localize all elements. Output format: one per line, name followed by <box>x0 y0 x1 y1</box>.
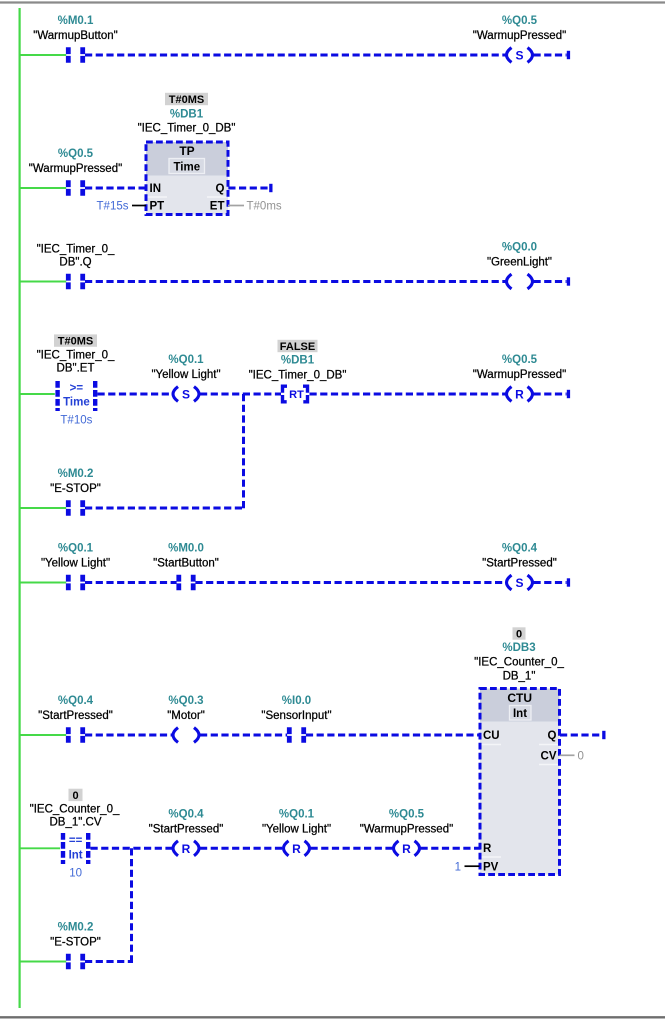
svg-text:%I0.0: %I0.0 <box>282 695 311 707</box>
svg-text:%Q0.0: %Q0.0 <box>502 242 537 254</box>
comparator value box 0 <box>69 789 83 802</box>
wire contact to coil Q0.0 <box>85 280 506 283</box>
svg-text:RT: RT <box>289 389 304 401</box>
label coil R %Q0.5 <box>473 354 566 381</box>
svg-text:"Yellow Light": "Yellow Light" <box>262 823 331 835</box>
timer block U1 TP body <box>146 142 228 215</box>
contact %Q0.4 StartPressed <box>68 727 82 742</box>
comparator CMP2 == Int <box>63 833 88 880</box>
label %Q0.4 StartPressed <box>482 543 557 570</box>
svg-text:"StartButton": "StartButton" <box>153 558 219 570</box>
label coil R %Q0.5 row6 <box>360 808 453 835</box>
svg-text:PV: PV <box>483 861 499 873</box>
svg-text:%Q0.1: %Q0.1 <box>58 543 94 555</box>
wire comparator to coil R Q0.4 <box>91 847 173 850</box>
wire coil S to RT coil <box>200 393 281 396</box>
svg-text:CV: CV <box>541 751 557 763</box>
svg-text:0: 0 <box>516 629 522 641</box>
RT value box <box>278 340 318 353</box>
svg-text:DB_1".CV: DB_1".CV <box>49 817 101 829</box>
label %Q0.1 Yellow Light <box>151 354 220 381</box>
label contact %Q0.1 <box>41 543 110 570</box>
svg-text:S: S <box>182 388 190 402</box>
wire rail to contact M0.2 <box>20 507 66 509</box>
svg-text:Int: Int <box>513 708 527 720</box>
rung 4 end tick <box>567 390 570 398</box>
svg-text:%Q0.3: %Q0.3 <box>168 695 203 707</box>
counter block U2 CTU body <box>480 689 560 875</box>
svg-text:%Q0.4: %Q0.4 <box>502 543 538 555</box>
svg-text:Int: Int <box>69 850 83 862</box>
counter Q end tick <box>602 731 605 739</box>
wire rail to contact M0.1 <box>20 54 66 56</box>
svg-text:>=: >= <box>70 383 84 395</box>
svg-text:DB".Q: DB".Q <box>59 257 91 269</box>
wire contact Q0.4 to coil Motor <box>85 734 172 737</box>
contact %M0.1 WarmupButton <box>68 47 82 62</box>
svg-text:"WarmupPressed": "WarmupPressed" <box>473 30 566 42</box>
RT labels FALSE %DB1 <box>249 340 347 382</box>
svg-text:%Q0.4: %Q0.4 <box>168 808 204 820</box>
wire comparator to coil S Q0.1 <box>98 393 173 396</box>
svg-text:PT: PT <box>150 201 165 213</box>
timer ET monitor T#0ms <box>228 201 282 213</box>
counter R separator <box>482 856 502 858</box>
wire rail to comparator == <box>20 847 60 849</box>
svg-text:T#0ms: T#0ms <box>247 201 282 213</box>
coil S %Q0.4 StartPressed <box>507 575 533 590</box>
svg-text:%Q0.1: %Q0.1 <box>279 808 315 820</box>
svg-text:%Q0.5: %Q0.5 <box>58 148 94 160</box>
svg-text:10: 10 <box>69 868 82 880</box>
wire contact E-STOP2 to branch <box>85 960 133 963</box>
bottom border <box>0 1016 665 1018</box>
timer value box <box>165 93 208 106</box>
svg-text:T#0MS: T#0MS <box>169 94 204 106</box>
wire RT to coil R Q0.5 <box>310 393 506 396</box>
svg-text:TP: TP <box>179 144 194 158</box>
svg-text:R: R <box>483 843 492 855</box>
coil RT IEC_Timer_0_DB <box>283 386 308 402</box>
svg-text:"WarmupPressed": "WarmupPressed" <box>360 823 453 835</box>
label %M0.1 WarmupButton <box>33 15 117 42</box>
coil R %Q0.5 WarmupPressed <box>394 841 420 856</box>
contact IEC_Timer_0_DB.Q <box>68 274 82 289</box>
svg-text:"WarmupButton": "WarmupButton" <box>33 30 117 42</box>
timer PT constant T#15s <box>97 201 146 213</box>
rung 3 end tick <box>567 277 570 285</box>
top border <box>0 1 665 3</box>
svg-text:1: 1 <box>455 861 461 873</box>
label coil R %Q0.4 <box>149 808 224 835</box>
wire rail to comparator <box>20 393 55 395</box>
svg-text:R: R <box>292 842 301 856</box>
counter value box <box>513 627 526 640</box>
wire rail to contact Q0.4 <box>20 734 66 736</box>
counter type box Int <box>510 706 532 721</box>
wire rail to contact M0.2 bottom <box>20 961 66 963</box>
wire contact Q0.1 to contact M0.0 <box>85 581 177 584</box>
label contact %Q0.5 WarmupPressed <box>29 148 122 175</box>
svg-text:CTU: CTU <box>507 691 532 705</box>
svg-text:R: R <box>402 842 411 856</box>
wire branch vertical E-STOP to rung 4 <box>242 394 245 509</box>
svg-text:%Q0.5: %Q0.5 <box>389 808 425 820</box>
svg-text:"IEC_Counter_0_: "IEC_Counter_0_ <box>30 804 120 816</box>
wire coil R Q0.5 to counter R <box>421 847 481 850</box>
wire contact M0.0 to coil S Q0.4 <box>195 581 505 584</box>
contact %M0.2 E-STOP bottom <box>68 954 82 969</box>
wire rail to contact Q0.1 <box>20 582 66 584</box>
svg-text:DB_1": DB_1" <box>503 671 536 683</box>
svg-text:%DB3: %DB3 <box>502 642 535 654</box>
svg-text:"E-STOP": "E-STOP" <box>50 483 101 495</box>
svg-text:DB".ET: DB".ET <box>57 362 95 374</box>
svg-text:%Q0.5: %Q0.5 <box>502 15 538 27</box>
svg-text:"IEC_Timer_0_DB": "IEC_Timer_0_DB" <box>249 370 347 382</box>
svg-text:"IEC_Timer_0_DB": "IEC_Timer_0_DB" <box>138 123 236 135</box>
wire contact E-STOP to branch <box>85 507 245 510</box>
svg-text:0: 0 <box>72 790 78 802</box>
coil R %Q0.4 StartPressed <box>173 841 199 856</box>
svg-text:==: == <box>69 835 83 847</box>
label %M0.2 E-STOP bottom <box>50 922 101 949</box>
label %M0.2 E-STOP <box>50 468 101 495</box>
wire timer Q output <box>228 187 269 190</box>
svg-text:"WarmupPressed": "WarmupPressed" <box>473 369 566 381</box>
contact %M0.2 E-STOP <box>68 500 82 515</box>
svg-text:S: S <box>515 576 523 590</box>
svg-text:IN: IN <box>150 183 162 195</box>
timer type box Time <box>169 159 205 174</box>
label %Q0.3 Motor <box>167 695 205 722</box>
left power rail <box>19 8 21 1008</box>
label contact %Q0.4 <box>38 695 113 722</box>
svg-text:%Q0.4: %Q0.4 <box>58 695 94 707</box>
svg-text:"WarmupPressed": "WarmupPressed" <box>29 163 122 175</box>
svg-text:Time: Time <box>63 397 90 409</box>
svg-text:T#10s: T#10s <box>60 415 92 427</box>
comparator value box <box>54 334 97 347</box>
svg-text:%DB1: %DB1 <box>281 355 315 367</box>
wire coil Motor to contact I0.0 <box>200 734 287 737</box>
svg-text:"E-STOP": "E-STOP" <box>50 937 101 949</box>
counter PV constant 1 <box>455 861 480 873</box>
svg-text:"GreenLight": "GreenLight" <box>487 257 552 269</box>
label IEC_Timer_0_DB.Q <box>37 244 115 269</box>
wire rail to contact Q0.5 <box>20 187 66 189</box>
label %M0.0 StartButton <box>153 543 219 570</box>
label coil R %Q0.1 <box>262 808 331 835</box>
svg-text:%Q0.5: %Q0.5 <box>502 354 538 366</box>
svg-text:0: 0 <box>578 751 584 763</box>
wire coil R Q0.1 to coil R Q0.5 <box>311 847 393 850</box>
coil %Q0.3 Motor <box>173 728 199 743</box>
wire counter Q output <box>560 734 602 737</box>
coil %Q0.0 GreenLight <box>507 274 533 289</box>
label %I0.0 SensorInput <box>261 695 331 722</box>
contact %Q0.5 WarmupPressed <box>68 180 82 195</box>
wire coil Q0.0 to rung end <box>534 280 567 283</box>
svg-text:Q: Q <box>548 730 557 742</box>
comparator == Int labels <box>30 789 120 829</box>
svg-text:"Yellow Light": "Yellow Light" <box>41 558 110 570</box>
rung 5 end tick <box>567 578 570 586</box>
svg-text:ET: ET <box>210 201 225 213</box>
svg-text:"IEC_Timer_0_: "IEC_Timer_0_ <box>37 244 115 256</box>
coil S %Q0.5 WarmupPressed <box>507 48 533 63</box>
svg-text:"IEC_Timer_0_: "IEC_Timer_0_ <box>37 349 115 361</box>
wire rail to contact timer Q <box>20 281 66 283</box>
label %Q0.5 WarmupPressed <box>473 15 566 42</box>
svg-text:R: R <box>182 842 191 856</box>
svg-text:%Q0.1: %Q0.1 <box>168 354 204 366</box>
svg-text:"SensorInput": "SensorInput" <box>261 710 331 722</box>
counter CV separator <box>539 764 558 766</box>
timer Q end tick <box>269 184 272 192</box>
coil R %Q0.5 WarmupPressed <box>507 387 533 402</box>
svg-text:T#15s: T#15s <box>97 201 129 213</box>
contact %Q0.1 Yellow Light <box>68 575 82 590</box>
svg-text:T#0MS: T#0MS <box>58 336 93 348</box>
contact %I0.0 SensorInput <box>289 727 303 742</box>
counter name IEC_Counter_0_DB_1 <box>474 657 564 683</box>
svg-text:CU: CU <box>483 730 500 742</box>
svg-text:Q: Q <box>216 183 225 195</box>
wire coil R Q0.4 to coil R Q0.1 <box>200 847 283 850</box>
wire contact M0.1 to coil Q0.5 <box>85 54 506 57</box>
wire coil Q0.4 to rung end <box>534 581 567 584</box>
svg-text:"StartPressed": "StartPressed" <box>149 823 224 835</box>
svg-text:%DB1: %DB1 <box>170 109 204 121</box>
wire contact I0.0 to counter CU <box>306 734 481 737</box>
svg-text:%M0.0: %M0.0 <box>168 543 204 555</box>
coil R %Q0.1 Yellow Light <box>284 841 310 856</box>
svg-text:S: S <box>515 49 523 63</box>
svg-text:"StartPressed": "StartPressed" <box>38 710 113 722</box>
svg-text:FALSE: FALSE <box>280 341 315 353</box>
svg-text:"Yellow Light": "Yellow Light" <box>151 369 220 381</box>
svg-text:"IEC_Counter_0_: "IEC_Counter_0_ <box>474 657 564 669</box>
svg-text:R: R <box>515 388 524 402</box>
svg-text:%M0.2: %M0.2 <box>58 922 94 934</box>
svg-text:%M0.1: %M0.1 <box>58 15 94 27</box>
rung 1 end tick <box>567 51 570 59</box>
svg-text:%M0.2: %M0.2 <box>58 468 94 480</box>
wire coil R to rung end <box>534 393 567 396</box>
wire contact Q0.5 to timer IN <box>85 187 147 190</box>
contact %M0.0 StartButton <box>179 575 193 590</box>
counter pin separators <box>482 744 559 746</box>
label %Q0.0 GreenLight <box>487 242 552 269</box>
svg-text:"Motor": "Motor" <box>167 710 205 722</box>
wire branch vertical E-STOP2 <box>130 848 133 962</box>
svg-text:Time: Time <box>173 162 200 174</box>
comparator CMP1 >= Time <box>58 381 96 427</box>
counter CV monitor 0 <box>560 751 584 763</box>
timer pin separators <box>148 196 227 198</box>
comparator >= Time labels <box>37 334 115 374</box>
svg-text:"StartPressed": "StartPressed" <box>482 558 557 570</box>
wire coil Q0.5 to rung end <box>534 54 567 57</box>
coil S %Q0.1 Yellow Light <box>173 387 199 402</box>
